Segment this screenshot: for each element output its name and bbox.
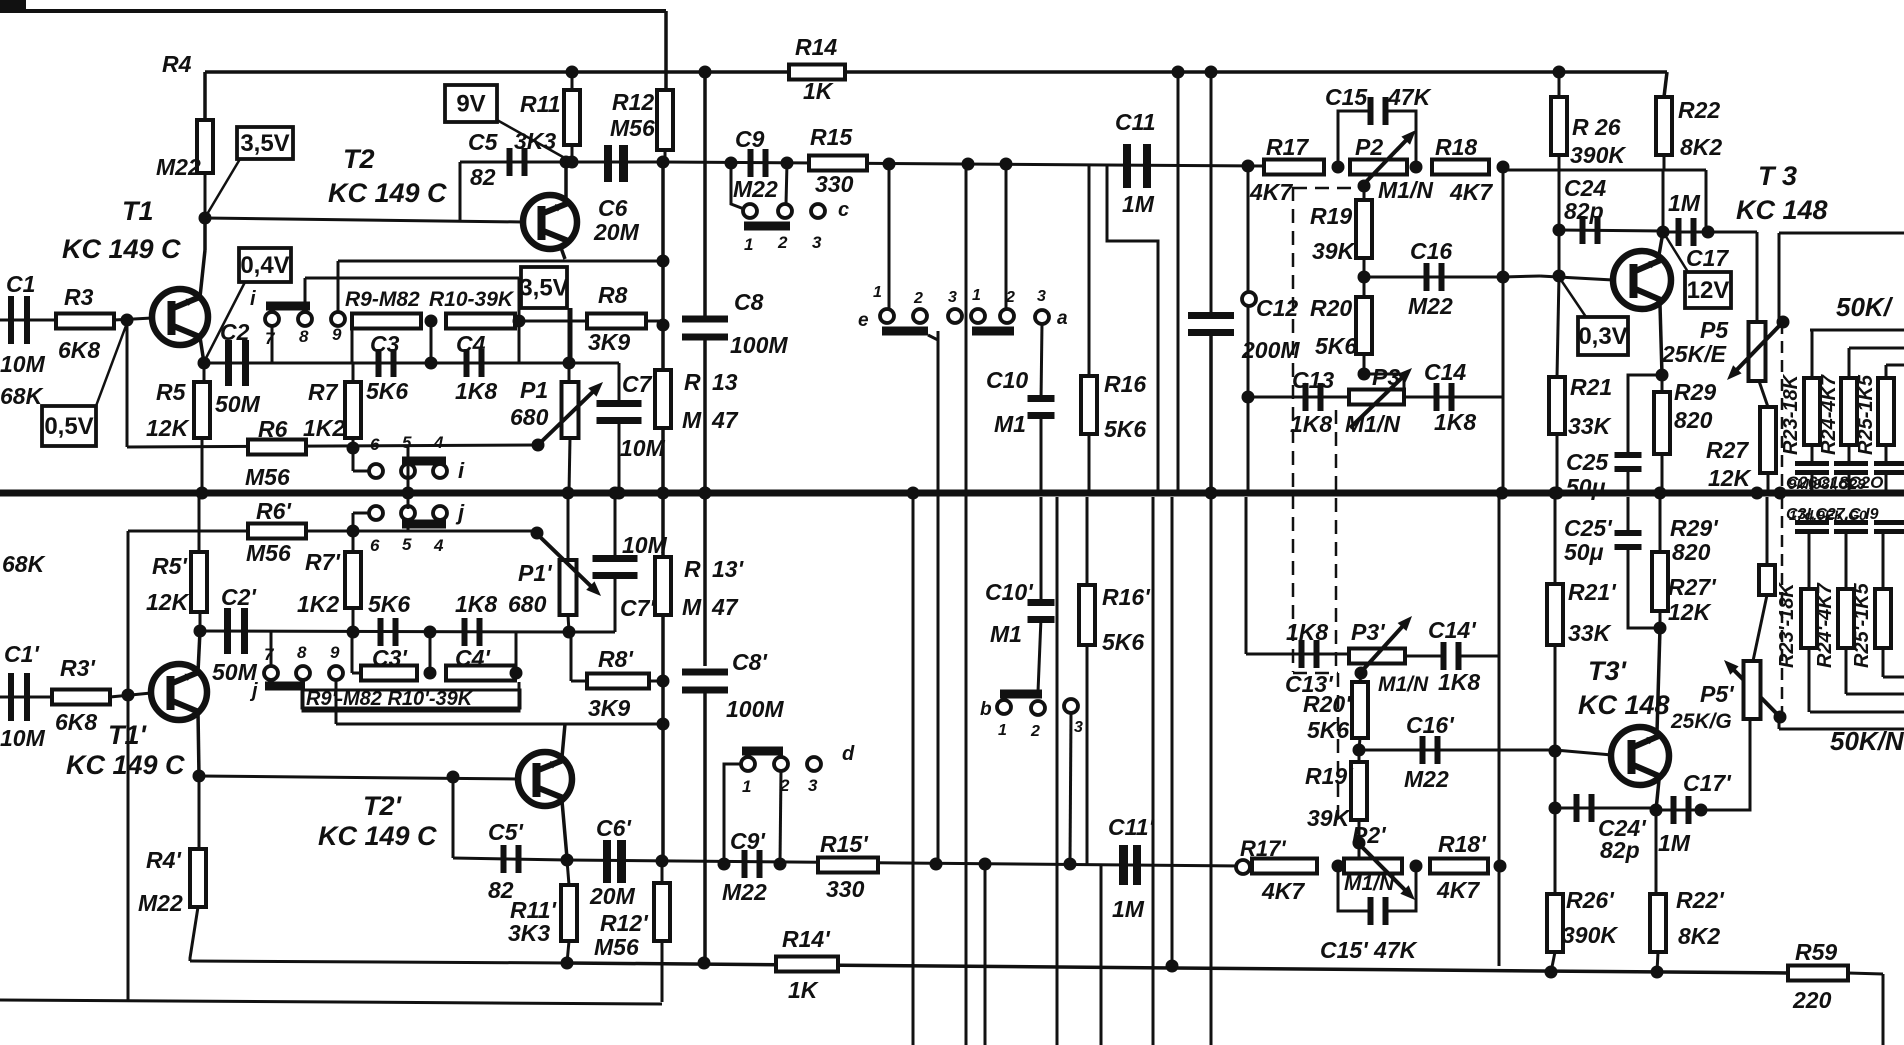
wire to P5 corner: [1708, 231, 1757, 234]
wire R5 to bus: [201, 438, 204, 493]
wire vert x1172: [1171, 497, 1174, 966]
switch bar b 1-2: [1000, 690, 1042, 699]
wire R24' bottom stub: [1845, 648, 1848, 694]
wire input bottom: [0, 696, 52, 699]
contact 3 (d): [807, 757, 821, 771]
svg-text:R17': R17': [1240, 836, 1286, 861]
resistor R6': [248, 524, 306, 539]
svg-text:P3': P3': [1351, 619, 1386, 645]
resistor R15': [818, 858, 878, 873]
svg-text:3: 3: [948, 289, 957, 306]
wire R24-C19: [1848, 445, 1851, 461]
wire R27'-P5': [1753, 595, 1767, 661]
svg-text:50M: 50M: [212, 659, 258, 685]
wire R16 to bus: [1088, 434, 1091, 493]
wire vert x938: [937, 331, 940, 864]
svg-text:R5': R5': [152, 553, 188, 579]
wire T3 collector diag: [1659, 232, 1663, 255]
wire R23' bottom stub: [1808, 648, 1811, 712]
wire C15 right loop: [1386, 111, 1416, 167]
svg-text:1M: 1M: [1112, 896, 1145, 922]
svg-text:P1': P1': [518, 560, 553, 586]
svg-text:R24'-4K7: R24'-4K7: [1814, 582, 1836, 668]
center supply bus (thick): [0, 490, 1904, 497]
svg-text:1K2: 1K2: [297, 591, 339, 617]
wire C7' stem: [614, 575, 617, 632]
svg-text:C25': C25': [1564, 515, 1613, 541]
capacitor C14': [1441, 642, 1447, 670]
wire collector to R4': [198, 776, 201, 849]
junction P5 wiper: [1777, 316, 1790, 329]
junction R18 right: [1497, 161, 1510, 174]
svg-text:3K3: 3K3: [508, 920, 550, 946]
wire input to C1/R3: [0, 319, 56, 322]
pointer 9V to collector node: [497, 120, 563, 157]
switch bar e 1-2: [882, 327, 928, 336]
voltage box 0,3V: [1578, 317, 1628, 355]
wire R16' down to row: [1086, 645, 1089, 864]
junction C17' right: [1695, 804, 1708, 817]
svg-text:C9': C9': [730, 828, 766, 854]
svg-text:M56: M56: [610, 115, 655, 141]
wire C7 to bus: [618, 422, 621, 493]
svg-text:T1: T1: [122, 196, 154, 226]
wire C6'/R15' long row: [567, 860, 1243, 866]
wire rail-R26: [1558, 72, 1561, 97]
wire vert x1101: [1100, 864, 1103, 1045]
svg-text:R21: R21: [1570, 374, 1612, 400]
junction C24 left: [1553, 224, 1566, 237]
svg-text:M: M: [682, 594, 702, 620]
wire wiper-R20': [1360, 673, 1361, 682]
wire C10' to b bar: [1038, 618, 1041, 692]
resistor R24'-4K7: [1838, 589, 1854, 648]
capacitor C8: [682, 316, 728, 323]
wire long riser x966: [965, 164, 968, 493]
wire C17 row: [1663, 231, 1708, 234]
wire corner down to R10 right: [518, 278, 521, 321]
svg-text:1: 1: [972, 287, 981, 304]
junction T3 collector: [1657, 226, 1670, 239]
capacitor C10': [1028, 599, 1055, 606]
wire C10 to bus: [1040, 413, 1043, 493]
svg-text:6: 6: [370, 435, 380, 454]
junction T1' base node: [122, 689, 135, 702]
svg-text:R 26: R 26: [1572, 114, 1621, 140]
dashed inner edge: [1335, 410, 1338, 673]
wire R19' to P2' wiper: [1358, 820, 1361, 866]
wire C15' right loop: [1386, 866, 1416, 911]
svg-text:M1: M1: [990, 621, 1022, 647]
svg-text:2: 2: [779, 776, 790, 795]
junction C3/C4: [425, 357, 438, 370]
wire T2 base: [205, 218, 523, 222]
svg-text:3: 3: [1074, 719, 1083, 736]
wire right box left lower: [1778, 712, 1781, 729]
wire bus to j: [407, 493, 410, 509]
svg-text:R9'-M82 R10'-39K: R9'-M82 R10'-39K: [306, 688, 474, 710]
resistor R21': [1547, 584, 1563, 645]
wire bottom rail: [567, 963, 1788, 973]
svg-text:R29': R29': [1670, 515, 1719, 541]
junction riser x985: [979, 858, 992, 871]
junction rail R22': [1651, 966, 1664, 979]
wire R10 right down: [518, 321, 521, 363]
svg-text:M22: M22: [138, 890, 183, 916]
svg-text:50μ: 50μ: [1566, 474, 1606, 500]
resistor R23'-18K: [1801, 589, 1817, 648]
wire right box left edge: [1778, 233, 1781, 322]
voltage box 3,5V right: [521, 267, 567, 308]
junction rail/R11: [566, 66, 579, 79]
svg-text:33K: 33K: [1568, 620, 1612, 646]
svg-text:50K/N: 50K/N: [1830, 726, 1904, 756]
junction bus x1502: [1496, 487, 1509, 500]
wire R3'-T1' base: [110, 693, 151, 697]
potentiometer P5': [1744, 661, 1761, 719]
wire y170 row: [1503, 169, 1706, 172]
junction T3' emitter node: [1654, 622, 1667, 635]
wire R13' down: [661, 615, 665, 862]
wire R8' left: [571, 680, 587, 683]
svg-text:4K7: 4K7: [1249, 179, 1293, 205]
junction C16/x1503: [1497, 271, 1510, 284]
resistor R16: [1081, 376, 1097, 434]
svg-text:47: 47: [711, 594, 739, 620]
switch bar 7-8: [266, 302, 310, 311]
svg-text:6K8: 6K8: [55, 709, 97, 735]
wire nested line 3 low: [1883, 676, 1904, 679]
junction riser x938 low: [930, 858, 943, 871]
svg-text:2: 2: [913, 290, 923, 307]
wire C2' row: [200, 631, 569, 632]
dashed lower inner: [1337, 673, 1340, 820]
wire riser to R9' left: [351, 632, 354, 673]
svg-text:R12: R12: [612, 89, 654, 115]
svg-text:R24-4K7: R24-4K7: [1818, 374, 1840, 455]
svg-text:C15' 47K: C15' 47K: [1320, 937, 1418, 963]
wire R23-C18: [1811, 445, 1814, 461]
top-left corner mark: [0, 0, 26, 10]
wire C8 to bus: [703, 340, 707, 493]
svg-text:3: 3: [1037, 288, 1046, 305]
wire top rail: [205, 70, 1667, 74]
capacitor C10: [1028, 395, 1055, 402]
wire C5' riser: [452, 777, 455, 858]
svg-text:M22: M22: [733, 176, 778, 202]
junction P1 wiper/R6 wire: [532, 439, 545, 452]
wire C24 row: [1559, 230, 1663, 231]
wire nested line 3: [1886, 364, 1904, 367]
wire T1 collector up: [203, 218, 207, 250]
wire C13 riser upper: [1247, 167, 1250, 293]
junction R11 bottom: [566, 156, 579, 169]
svg-text:R59: R59: [1795, 939, 1837, 965]
wire T2' base: [199, 776, 518, 779]
svg-text:R: R: [684, 556, 701, 582]
wire C9 to contact2: [786, 163, 787, 204]
capacitor C17: [1676, 218, 1682, 246]
junction T3' base: [1549, 745, 1562, 758]
svg-text:1K8: 1K8: [1438, 669, 1480, 695]
wire base node down to R6 wire: [126, 320, 129, 447]
resistor R14: [789, 65, 845, 80]
wire contact8 riser: [304, 278, 307, 313]
contact 8 (j-row): [296, 666, 310, 680]
capacitor C4: [464, 349, 470, 377]
wire right box top: [1779, 232, 1904, 235]
junction C13 wire: [1242, 391, 1255, 404]
svg-text:P3: P3: [1372, 364, 1400, 390]
capacitor C6p: [603, 840, 611, 883]
junction bus x663: [657, 487, 670, 500]
capacitor C7': [593, 555, 638, 562]
capacitor C9': [742, 850, 748, 878]
svg-text:T2': T2': [363, 791, 403, 821]
capacitor C2: [225, 340, 232, 386]
wire T2 collector: [564, 162, 568, 202]
wire R6 feedback row: [127, 445, 538, 447]
svg-text:C2': C2': [221, 584, 257, 610]
resistor R21: [1549, 377, 1565, 434]
connector circle R17' left: [1236, 860, 1250, 874]
resistor R7: [345, 382, 361, 438]
wire bus-R29': [1659, 497, 1662, 552]
svg-text:8K2: 8K2: [1680, 134, 1722, 160]
svg-text:M1/N: M1/N: [1378, 673, 1429, 696]
wire contact6' left: [353, 512, 370, 515]
svg-text:200M: 200M: [1241, 337, 1300, 363]
junction R9/R10: [425, 315, 438, 328]
switch bar d 1-2: [742, 747, 783, 756]
junction rail/R26: [1553, 66, 1566, 79]
capacitor C14: [1434, 383, 1440, 411]
wire R4' to bottom rail: [190, 907, 198, 961]
svg-text:82p: 82p: [1564, 198, 1604, 224]
svg-text:C25: C25: [1566, 449, 1609, 475]
wire e bar to bus: [928, 335, 938, 493]
svg-text:R27: R27: [1706, 437, 1749, 463]
junction bus/R5: [196, 487, 209, 500]
svg-text:82: 82: [470, 164, 496, 190]
P2' wiper arrow: [1360, 845, 1409, 894]
svg-text:R7': R7': [305, 549, 341, 575]
svg-text:4K7: 4K7: [1261, 878, 1305, 904]
wire P1 top: [568, 363, 571, 382]
wire C20-bus: [1885, 475, 1888, 493]
junction R8' right: [657, 675, 670, 688]
contact 3 (a): [1035, 310, 1049, 324]
junction P1 top: [563, 357, 576, 370]
resistor R22: [1656, 97, 1672, 155]
wire R27-bus: [1767, 473, 1770, 493]
resistor R19': [1351, 762, 1367, 820]
junction P2/R18: [1410, 161, 1423, 174]
resistor R17: [1264, 160, 1324, 175]
resistor R10': [446, 666, 515, 681]
svg-text:1K: 1K: [788, 977, 819, 1003]
junction P3 node: [1358, 368, 1371, 381]
capacitor C16: [1424, 263, 1430, 291]
svg-text:R20: R20: [1310, 295, 1352, 321]
switch bar c 1-2: [744, 222, 790, 231]
junction C9 left: [725, 157, 738, 170]
svg-text:12K: 12K: [146, 589, 190, 615]
wire T3' collector diag: [1656, 780, 1659, 810]
svg-text:33K: 33K: [1568, 413, 1612, 439]
wire R26 bottom: [1558, 155, 1561, 170]
svg-text:25K/G: 25K/G: [1670, 710, 1732, 733]
resistor R19: [1356, 200, 1372, 258]
svg-text:KC 149 C: KC 149 C: [328, 178, 447, 208]
junction bus x1780: [1774, 487, 1787, 500]
svg-text:C17': C17': [1683, 770, 1732, 796]
svg-text:R6': R6': [256, 498, 292, 524]
resistor R3: [56, 314, 114, 329]
wire C14 row: [1404, 396, 1503, 399]
resistor R27: [1760, 407, 1776, 473]
svg-text:8: 8: [299, 327, 309, 346]
wire R6' feedback row: [128, 530, 537, 533]
resistor R59: [1788, 966, 1848, 981]
svg-text:220: 220: [1792, 987, 1832, 1013]
junction bus x705: [699, 487, 712, 500]
wire emitter to T3': [1657, 628, 1660, 732]
wire C25 elbow: [1628, 375, 1662, 453]
contact 3 (b): [1064, 699, 1078, 713]
wire P3 right link: [1403, 374, 1406, 390]
wire C17' row: [1656, 809, 1701, 812]
svg-text:3,5V: 3,5V: [240, 130, 289, 157]
junction riser3: [1000, 158, 1013, 171]
wire rail to R11: [571, 72, 574, 90]
wire contact7 riser: [271, 325, 274, 363]
svg-text:9: 9: [330, 643, 340, 662]
switch bar i: [402, 457, 446, 466]
wire R12' down: [661, 941, 664, 1002]
svg-text:R22: R22: [1678, 97, 1720, 123]
wire R3 to T1 base: [114, 318, 152, 320]
wire long vert x1153: [1152, 497, 1155, 1045]
wire contact9 riser: [337, 261, 340, 311]
voltage box 0,4V: [239, 248, 291, 282]
svg-text:12K: 12K: [1668, 599, 1712, 625]
resistor R11': [561, 885, 577, 941]
svg-text:1K8: 1K8: [1286, 619, 1328, 645]
junction x663/724: [657, 718, 670, 731]
wire bus-C25': [1627, 497, 1630, 530]
resistor R26: [1551, 97, 1567, 155]
junction R10' right: [510, 667, 523, 680]
wire d riser1: [724, 764, 741, 864]
wire corner up to P5': [1701, 719, 1750, 810]
junction R7'/R6' wire: [347, 525, 360, 538]
wire R8 left: [569, 320, 587, 323]
junction C16' tap: [1353, 744, 1366, 757]
wire R8 right: [646, 320, 663, 323]
svg-text:R27': R27': [1668, 574, 1717, 600]
wire C18'-R23': [1808, 534, 1811, 589]
voltage box 12V: [1685, 272, 1731, 308]
contact 8: [298, 312, 312, 326]
wire rail corner down to R22: [1664, 72, 1667, 97]
wire base riser up to R6' wire: [127, 531, 130, 695]
junction P1' bottom node: [563, 626, 576, 639]
svg-text:3K9: 3K9: [588, 329, 630, 355]
svg-text:C10: C10: [986, 367, 1028, 393]
wire R13 to bus: [661, 428, 665, 493]
junction R12' top: [656, 855, 669, 868]
wire T2' collector diag: [562, 801, 567, 858]
resistor R8': [587, 674, 649, 689]
wire collector to R22': [1655, 810, 1658, 894]
P1 wiper arrow: [538, 388, 597, 445]
junction rail/vert1178: [1172, 66, 1185, 79]
svg-text:M22: M22: [1408, 293, 1453, 319]
wire R25-C20: [1885, 445, 1888, 461]
contact 2 (d): [774, 757, 788, 771]
potentiometer P2' body: [1344, 859, 1402, 874]
svg-text:3: 3: [808, 776, 818, 795]
wire C5' segment: [453, 858, 567, 860]
wire R22 bottom: [1663, 155, 1666, 170]
wire R7' to C2' row: [352, 608, 355, 632]
wire T3 base: [1540, 276, 1613, 280]
contact 1 (d): [741, 757, 755, 771]
svg-text:1: 1: [873, 284, 882, 301]
wire R20 to P3: [1363, 354, 1366, 374]
wire corner to C17 right: [1706, 170, 1708, 230]
wire base to R21: [1557, 276, 1559, 377]
svg-text:50μ: 50μ: [1564, 539, 1604, 565]
svg-text:R15: R15: [810, 124, 853, 150]
wire a3 to C10: [1041, 323, 1042, 401]
wire R8' left riser: [570, 632, 573, 681]
junction C3'/C4': [424, 626, 437, 639]
switch bar 7'-8': [265, 682, 305, 691]
resistor R3': [52, 690, 110, 705]
svg-text:C17: C17: [1686, 245, 1729, 271]
junction R10 right: [513, 315, 526, 328]
svg-text:R8: R8: [598, 282, 628, 308]
junction R8 right: [657, 319, 670, 332]
wire bus-R13': [661, 497, 665, 557]
wire C16' row to T3' base: [1359, 749, 1555, 752]
wire C2 row: [204, 362, 352, 365]
svg-text:M1/N: M1/N: [1344, 872, 1395, 895]
svg-text:6: 6: [370, 536, 380, 555]
contact 6 (j): [369, 506, 383, 520]
junction emitter/C2 wire: [198, 357, 211, 370]
junction rail/C12: [1205, 66, 1218, 79]
junction bus/switch: [402, 487, 415, 500]
svg-text:20M: 20M: [589, 883, 636, 909]
wire R24 top stub: [1848, 348, 1851, 378]
svg-text:C5: C5: [468, 129, 499, 155]
wire T1' collector diag: [198, 712, 199, 776]
junction R17'/P2': [1332, 860, 1345, 873]
capacitor C15: [1368, 97, 1374, 125]
svg-text:KC 149 C: KC 149 C: [318, 821, 437, 851]
svg-text:R11: R11: [520, 91, 561, 117]
wire right box bottom: [1779, 728, 1904, 731]
wire x663 vertical: [661, 162, 665, 370]
junction C24'/C17': [1650, 804, 1663, 817]
resistor R24-4K7: [1841, 378, 1857, 445]
wire nested line 2 low: [1846, 693, 1904, 696]
dashed box left edge: [1292, 187, 1295, 672]
contact 1 (c): [743, 204, 757, 218]
